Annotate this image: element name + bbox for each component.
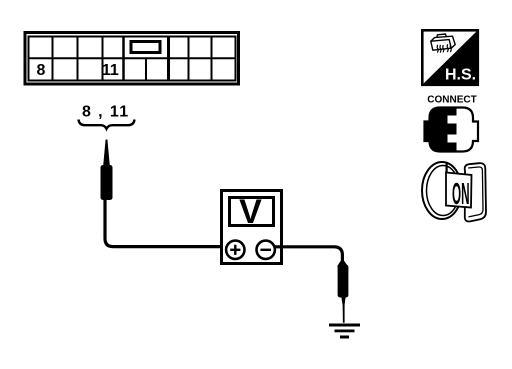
connector inner frame — [29, 37, 236, 81]
key cylinder ellipse — [422, 162, 462, 219]
svg-text:CONNECT: CONNECT — [427, 95, 476, 106]
ON flag — [446, 173, 472, 208]
wire from voltmeter minus terminal to probe 2 — [275, 247, 342, 266]
brace under 8 , 11 — [79, 120, 135, 129]
voltmeter plus terminal — [226, 241, 244, 259]
voltmeter body — [222, 191, 282, 264]
connector right section column lines — [189, 37, 212, 81]
icon H.S. box — [422, 30, 479, 86]
connector mid horizontal line — [29, 57, 236, 59]
probe 1 needle tip — [103, 140, 110, 166]
svg-text:ON: ON — [452, 176, 470, 211]
svg-text:11: 11 — [102, 62, 119, 79]
connector left section column lines — [53, 37, 103, 81]
svg-text:V: V — [239, 193, 262, 231]
connector bottom middle divider — [145, 58, 147, 80]
connector middle section left divider — [122, 37, 125, 81]
connector SMJ outer shell — [25, 33, 239, 85]
connector latch rectangle — [131, 42, 160, 53]
key slot line — [446, 164, 448, 175]
key head — [465, 163, 486, 221]
svg-text:H.S.: H.S. — [445, 67, 476, 84]
ground symbol — [329, 324, 360, 339]
wire from probe 1 to voltmeter plus terminal — [105, 199, 227, 247]
connector middle section right divider — [167, 37, 170, 81]
voltmeter minus terminal — [257, 241, 275, 259]
icon H.S. connector art — [431, 34, 455, 50]
probe 2 needle tip — [341, 297, 345, 323]
probe 2 body — [338, 265, 349, 298]
probe 1 body — [101, 165, 113, 200]
icon CONNECT connector shape — [425, 108, 479, 152]
icon ignition ON — [422, 162, 486, 222]
svg-text:8: 8 — [37, 62, 46, 79]
icon H.S. wire squiggles — [437, 44, 451, 52]
voltmeter display window — [230, 198, 274, 226]
probe 2 shoulder — [337, 261, 348, 267]
svg-text:8 , 11: 8 , 11 — [82, 104, 130, 121]
